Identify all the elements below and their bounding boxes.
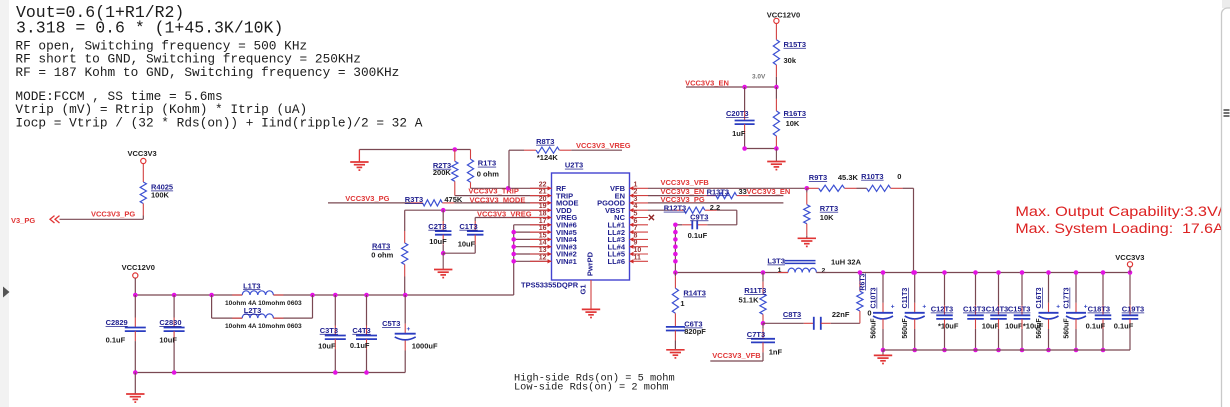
resistor R10T3 0: [867, 185, 891, 191]
wire VCC3V3_PG / MODE net left part: [328, 202, 411, 204]
wire VBST to C9T3: [736, 210, 738, 225]
svg-text:51.1K: 51.1K: [739, 295, 760, 304]
pin 6 LL#1: [630, 224, 649, 226]
ground (under R16T3): [775, 149, 777, 162]
svg-text:R15T3: R15T3: [784, 40, 807, 49]
svg-text:1: 1: [680, 299, 684, 308]
svg-text:0: 0: [897, 172, 901, 181]
junction VIN bus: [511, 252, 516, 257]
wire power to R4025: [142, 164, 144, 182]
resistor R12T3 2.2: [648, 209, 672, 211]
svg-text:820pF: 820pF: [684, 327, 706, 336]
capacitor C10T3 560uF: [882, 273, 884, 303]
wire VIN pin row 17: [514, 224, 552, 226]
svg-text:C5T3: C5T3: [382, 319, 400, 328]
junction bank top: [912, 270, 917, 275]
capacitor C12T3 *10uF: [944, 273, 946, 306]
junction bank top: [881, 270, 886, 275]
svg-text:TPS53355DQPR: TPS53355DQPR: [521, 280, 579, 289]
resistor R1T3 0 ohm: [470, 150, 472, 160]
wire C2T3-C1T3 bottom: [443, 252, 475, 254]
pin 13 VIN#2: [530, 253, 552, 255]
svg-text:2: 2: [822, 267, 826, 274]
svg-text:1: 1: [778, 267, 782, 274]
wire PGOOD net: [648, 202, 783, 204]
junction VIN bus: [511, 259, 516, 264]
resistor R4T3 0 ohm: [404, 210, 406, 231]
svg-text:L1T3: L1T3: [243, 281, 261, 290]
svg-text:1uH 32A: 1uH 32A: [831, 258, 862, 267]
svg-text:C1T3: C1T3: [459, 222, 477, 231]
junction bank top: [973, 270, 978, 275]
panel menu icon: [1224, 110, 1230, 116]
junction R11T3 bottom: [761, 321, 766, 326]
svg-text:18: 18: [539, 211, 547, 218]
svg-text:+: +: [922, 303, 926, 310]
resistor R6T3 0: [859, 273, 861, 280]
svg-text:C10T3: C10T3: [871, 287, 878, 308]
junction bank bottom: [1020, 348, 1025, 353]
junction LL bus: [673, 237, 678, 242]
junction bank top: [996, 270, 1001, 275]
svg-text:8: 8: [634, 232, 638, 239]
capacitor C2T3 10uF: [442, 210, 444, 221]
junction LL bus: [673, 230, 678, 235]
svg-text:C2T3: C2T3: [428, 222, 446, 231]
capacitor C1T3 10uF: [474, 218, 476, 222]
svg-text:10uF: 10uF: [982, 322, 1000, 331]
junction EN divider: [774, 85, 779, 90]
capacitor C16T3 560uF: [1048, 273, 1050, 303]
capacitor C13T3 10uF: [975, 273, 977, 306]
junction bank top: [1020, 270, 1025, 275]
svg-text:22nF: 22nF: [832, 310, 850, 319]
svg-text:560uF: 560uF: [902, 318, 909, 339]
svg-text:10uF: 10uF: [458, 239, 476, 248]
svg-text:3.318 = 0.6 * (1+45.3K/10K): 3.318 = 0.6 * (1+45.3K/10K): [16, 18, 283, 37]
svg-text:1: 1: [634, 181, 638, 188]
wire VCC3V3_PG to R4025: [60, 218, 144, 220]
svg-text:VCC3V3_VFB: VCC3V3_VFB: [661, 178, 710, 187]
svg-text:R16T3: R16T3: [784, 109, 807, 118]
ground (under C2T3): [442, 253, 444, 269]
junction bank bottom: [973, 348, 978, 353]
junction LL bus: [673, 259, 678, 264]
svg-text:C19T3: C19T3: [1122, 305, 1145, 314]
svg-text:R6T3: R6T3: [859, 273, 866, 290]
wire input bus: [135, 294, 242, 296]
svg-text:0.1uF: 0.1uF: [1086, 322, 1106, 331]
resistor R15T3 30k: [773, 40, 779, 65]
capacitor C17T3 560uF: [1075, 273, 1077, 303]
svg-text:C2830: C2830: [159, 318, 181, 327]
wire VIN bus vertical: [513, 225, 515, 295]
svg-text:560uF: 560uF: [1064, 318, 1071, 339]
svg-text:10uF: 10uF: [429, 237, 447, 246]
resistor R4025 100K: [140, 182, 146, 204]
pin 14 VIN#3: [530, 246, 552, 248]
capacitor C6T3 820pF: [666, 326, 685, 328]
capacitor C3T3 10uF: [334, 295, 336, 326]
svg-text:+: +: [1056, 303, 1060, 310]
junction LL bus: [673, 223, 678, 228]
svg-text:10ohm 4A 10mohm 0603: 10ohm 4A 10mohm 0603: [225, 300, 302, 307]
svg-text:R3T3: R3T3: [405, 195, 423, 204]
capacitor C14T3 10uF: [998, 273, 1000, 306]
svg-text:10: 10: [634, 247, 642, 254]
junction VIN bus: [511, 237, 516, 242]
resistor R8T3 *124K: [508, 150, 510, 188]
wire R4025 to PG net: [142, 204, 144, 216]
capacitor C15T3 *10uF: [1021, 273, 1023, 306]
sidebar expand arrow: [3, 287, 10, 298]
capacitor C4T3 0.1uF: [366, 295, 368, 326]
junction LL bus: [673, 244, 678, 249]
resistor R9T3 45.3K: [807, 187, 819, 189]
svg-text:10ohm 4A 10mohm 0603: 10ohm 4A 10mohm 0603: [225, 323, 302, 330]
svg-text:9: 9: [634, 240, 638, 247]
capacitor C19T3 0.1uF: [1129, 273, 1131, 306]
junction RF/R8T3: [506, 186, 511, 191]
pin 4 VBST: [630, 209, 649, 211]
junction input bus: [133, 293, 138, 298]
svg-text:0.1uF: 0.1uF: [106, 335, 126, 344]
svg-text:R13T3: R13T3: [707, 187, 730, 196]
svg-text:1000uF: 1000uF: [412, 342, 438, 351]
ground (under C6T3): [666, 350, 684, 358]
junction bank bottom: [1046, 348, 1051, 353]
ground (G1): [582, 309, 600, 317]
svg-text:11: 11: [634, 254, 642, 261]
svg-text:200K: 200K: [433, 168, 452, 177]
wire divider bottom: [745, 148, 777, 150]
junction LL corner: [673, 270, 678, 275]
pin 17 VIN#6: [530, 224, 552, 226]
junction divider bottom: [774, 146, 779, 151]
svg-text:VCC3V3_EN: VCC3V3_EN: [747, 187, 791, 196]
svg-text:R4T3: R4T3: [372, 241, 390, 250]
wire VIN pin row 12: [514, 260, 552, 262]
svg-text:VCC3V3_EN: VCC3V3_EN: [685, 79, 729, 88]
svg-text:Low-side Rds(on) = 2 mohm: Low-side Rds(on) = 2 mohm: [514, 381, 668, 393]
wire RF net: [471, 187, 552, 189]
pin 22 RF: [530, 187, 552, 189]
pin 12 VIN#1: [530, 260, 552, 262]
svg-text:VIN#1: VIN#1: [556, 257, 577, 266]
wire VFB net: [648, 187, 807, 189]
svg-text:VCC3V3: VCC3V3: [1115, 253, 1144, 262]
capacitor C5T3 1000uF (polarized): [404, 295, 406, 324]
junction bank top: [942, 270, 947, 275]
svg-text:0.1uF: 0.1uF: [1114, 322, 1134, 331]
svg-text:L3T3: L3T3: [767, 257, 785, 266]
svg-text:LL#6: LL#6: [607, 257, 625, 266]
svg-text:R7T3: R7T3: [820, 204, 838, 213]
junction VFB divider: [805, 186, 810, 191]
svg-text:R8T3: R8T3: [536, 137, 554, 146]
junction bank bottom: [942, 348, 947, 353]
svg-text:0.1uF: 0.1uF: [350, 341, 370, 350]
svg-text:C17T3: C17T3: [1064, 287, 1071, 308]
right floating panel: [1222, 0, 1230, 8]
ferrite bead L1T3: [242, 291, 273, 295]
capacitor C8T3 22nF: [763, 322, 804, 324]
svg-text:0: 0: [867, 309, 871, 318]
wire feedback tap down: [913, 188, 915, 272]
svg-text:R10T3: R10T3: [861, 172, 884, 181]
junction LL bus: [673, 252, 678, 257]
svg-text:10uF: 10uF: [159, 335, 177, 344]
svg-text:VCC12V0: VCC12V0: [767, 11, 800, 20]
svg-text:7: 7: [634, 225, 638, 232]
svg-text:10uF: 10uF: [1005, 322, 1023, 331]
wire VCC3V3_EN net: [686, 86, 776, 88]
svg-text:R12T3: R12T3: [664, 204, 687, 213]
wire EN net: [648, 195, 704, 197]
junction R2T3 top: [453, 147, 458, 152]
svg-text:2.2: 2.2: [710, 203, 720, 212]
svg-text:VCC3V3_PG: VCC3V3_PG: [661, 195, 705, 204]
wire LL bus vertical: [674, 225, 676, 273]
svg-text:4: 4: [634, 203, 638, 210]
wire VCC3V3_VFB net: [710, 360, 763, 362]
svg-text:5: 5: [634, 211, 638, 218]
svg-text:45.3K: 45.3K: [838, 173, 859, 182]
svg-text:C7T3: C7T3: [747, 330, 765, 339]
svg-text:560uF: 560uF: [1036, 318, 1043, 339]
svg-text:10K: 10K: [820, 213, 834, 222]
svg-text:V3_PG: V3_PG: [11, 216, 35, 225]
wire LL to L3T3: [675, 272, 788, 274]
wire TRIP net: [455, 195, 552, 197]
wire L2T3 branch: [211, 295, 213, 318]
wire input ground bus: [135, 372, 405, 374]
capacitor C2830 10uF: [173, 295, 175, 318]
pin 11 LL#6: [630, 260, 649, 262]
svg-text:20: 20: [539, 196, 547, 203]
svg-text:R14T3: R14T3: [683, 289, 706, 298]
svg-text:21: 21: [539, 189, 547, 196]
pin G1 stub: [590, 280, 592, 309]
capacitor C2829 0.1uF: [134, 295, 136, 318]
resistor R14T3 1: [674, 273, 676, 277]
svg-text:Iocp = Vtrip / (32 * Rds(on)): Iocp = Vtrip / (32 * Rds(on)) + Iind(rip…: [15, 115, 422, 130]
junction bank bottom: [912, 348, 917, 353]
svg-text:2: 2: [634, 189, 638, 196]
junction L3T3 pin1: [761, 270, 766, 275]
svg-text:Max. Output Capability:3.3V/3: Max. Output Capability:3.3V/3: [1015, 204, 1230, 219]
svg-text:3: 3: [634, 196, 638, 203]
pin 21 TRIP: [530, 195, 552, 197]
junction C2T3 top: [441, 208, 446, 213]
junction bank bottom: [996, 348, 1001, 353]
svg-text:100K: 100K: [151, 191, 170, 200]
pin 19 VDD: [530, 209, 552, 211]
svg-text:U2T3: U2T3: [565, 161, 583, 170]
svg-text:22: 22: [539, 181, 547, 188]
svg-text:G1: G1: [579, 284, 588, 294]
wire VDD net: [405, 209, 552, 211]
svg-text:560uF: 560uF: [871, 318, 878, 339]
wire VIN pin row 15: [514, 238, 552, 240]
svg-text:C8T3: C8T3: [783, 310, 801, 319]
svg-text:C11T3: C11T3: [902, 288, 909, 309]
off-page connector VCC3V3_PG: [50, 216, 55, 223]
svg-text:15: 15: [539, 232, 547, 239]
svg-text:R1T3: R1T3: [478, 159, 496, 168]
svg-text:6: 6: [634, 218, 638, 225]
pin 3 PGOOD: [630, 202, 649, 204]
svg-text:R11T3: R11T3: [744, 286, 766, 295]
junction VIN bus: [511, 230, 516, 235]
svg-text:C3T3: C3T3: [320, 326, 338, 335]
svg-text:VCC3V3: VCC3V3: [128, 149, 157, 158]
svg-text:Max. System Loading: 17.6A: Max. System Loading: 17.6A: [1015, 221, 1224, 236]
svg-text:14: 14: [539, 240, 547, 247]
ground (under R7T3): [798, 238, 816, 246]
pin 16 VIN#5: [530, 231, 552, 233]
ground (input, bottom left): [134, 373, 136, 395]
junction bank top: [1074, 270, 1079, 275]
svg-text:VCC3V3_VFB: VCC3V3_VFB: [712, 351, 761, 360]
pin 7 LL#2: [630, 231, 649, 233]
svg-text:C4T3: C4T3: [352, 326, 370, 335]
svg-text:C16T3: C16T3: [1036, 287, 1043, 308]
pin 5 NC: [630, 217, 649, 219]
svg-text:RF = 187 Kohm to GND, Switchin: RF = 187 Kohm to GND, Switching frequenc…: [15, 65, 399, 80]
resistor R16T3 10K: [775, 87, 777, 99]
pin 18 VREG: [530, 217, 552, 219]
junction ground bus: [133, 370, 138, 375]
wire L3T3 to output: [816, 272, 1130, 274]
svg-text:3.0V: 3.0V: [752, 74, 766, 81]
svg-text:16: 16: [539, 225, 547, 232]
wire VIN pin row 16: [514, 231, 552, 233]
svg-text:0 ohm: 0 ohm: [371, 251, 393, 260]
junction bank bottom: [881, 348, 886, 353]
svg-text:10uF: 10uF: [318, 342, 336, 351]
svg-text:+: +: [891, 303, 895, 310]
svg-text:19: 19: [539, 203, 547, 210]
wire gnd to R2T3/R1T3 top: [359, 149, 470, 151]
junction bank bottom: [1074, 348, 1079, 353]
svg-text:VCC3V3_VREG: VCC3V3_VREG: [477, 210, 532, 219]
junction VIN bus: [511, 244, 516, 249]
wire MODE net right part: [442, 202, 454, 204]
pin 15 VIN#4: [530, 238, 552, 240]
svg-text:VCC3V3_MODE: VCC3V3_MODE: [470, 196, 526, 205]
ferrite bead L2T3: [242, 314, 273, 318]
resistor R3T3 475K: [423, 200, 443, 206]
svg-text:13: 13: [539, 247, 547, 254]
svg-text:1uF: 1uF: [732, 129, 746, 138]
svg-text:VCC3V3_PG: VCC3V3_PG: [345, 194, 389, 203]
junction bank top: [1128, 270, 1133, 275]
svg-text:C9T3: C9T3: [690, 212, 708, 221]
wire VREG net: [475, 217, 551, 219]
op IC U2T3 TPS53355DQPR: [552, 173, 630, 280]
svg-text:*10uF: *10uF: [938, 322, 959, 331]
svg-text:1nF: 1nF: [769, 348, 783, 357]
svg-text:C12T3: C12T3: [931, 305, 954, 314]
capacitor C11T3 560uF: [914, 273, 916, 303]
svg-text:VCC12V0: VCC12V0: [122, 263, 155, 272]
wire VIN pin row 14: [514, 246, 552, 248]
resistor R2T3 200K: [454, 150, 456, 162]
resistor R13T3 33: [716, 193, 737, 199]
left panel strip: [0, 0, 9, 407]
svg-text:C15T3: C15T3: [1008, 305, 1031, 314]
pin 1 VFB: [630, 187, 649, 189]
svg-text:C18T3: C18T3: [1088, 305, 1111, 314]
svg-text:30k: 30k: [784, 56, 797, 65]
junction C2T3 bottom: [441, 251, 446, 256]
junction output rail: [858, 270, 863, 275]
ground (bank): [882, 350, 884, 355]
svg-text:0 ohm: 0 ohm: [477, 170, 499, 179]
svg-text:17: 17: [539, 218, 547, 225]
pin 8 LL#3: [630, 238, 649, 240]
wire bank ground bus: [883, 349, 1130, 351]
capacitor C20T3 1uF: [744, 87, 746, 111]
capacitor C9T3 0.1uF: [675, 224, 682, 226]
pin 20 MODE: [530, 202, 552, 204]
capacitor C7T3 1nF: [762, 323, 764, 329]
svg-text:C13T3: C13T3: [963, 305, 986, 314]
junction bank bottom: [1101, 348, 1106, 353]
svg-text:L2T3: L2T3: [244, 306, 262, 315]
pin 9 LL#4: [630, 246, 649, 248]
no-connect X on pin 5 NC: [649, 215, 654, 220]
svg-text:R9T3: R9T3: [809, 173, 827, 182]
resistor R11T3 51.1K: [762, 273, 764, 282]
inductor L3T3 1uH 32A: [788, 268, 816, 272]
svg-text:PwrPD: PwrPD: [586, 251, 595, 276]
svg-text:0.1uF: 0.1uF: [688, 231, 708, 240]
junction bank top: [1101, 270, 1106, 275]
svg-text:12: 12: [539, 254, 547, 261]
svg-text:C14T3: C14T3: [986, 305, 1009, 314]
svg-text:C20T3: C20T3: [726, 109, 749, 118]
svg-text:VCC3V3_PG: VCC3V3_PG: [91, 209, 135, 218]
svg-text:C2829: C2829: [106, 318, 128, 327]
svg-text:10K: 10K: [786, 119, 800, 128]
svg-text:*124K: *124K: [537, 153, 558, 162]
resistor R7T3 10K: [806, 188, 808, 192]
capacitor C18T3 0.1uF: [1102, 273, 1104, 306]
svg-text:VCC3V3_VREG: VCC3V3_VREG: [576, 141, 631, 150]
ground (top middle): [358, 150, 360, 163]
svg-text:+: +: [407, 326, 411, 333]
wire VIN pin row 13: [514, 253, 552, 255]
pin 2 EN: [630, 195, 649, 197]
pin 10 LL#5: [630, 253, 649, 255]
junction bank top: [1046, 270, 1051, 275]
